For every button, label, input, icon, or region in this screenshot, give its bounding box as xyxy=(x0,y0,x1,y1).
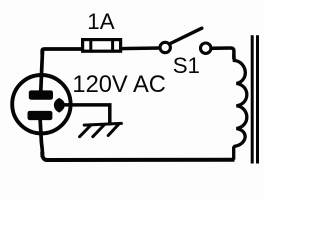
wire bottom rail xyxy=(42,154,232,160)
transformer T1 primary winding xyxy=(234,56,247,158)
transformer core line right xyxy=(256,35,259,163)
chassis ground symbol xyxy=(80,123,122,136)
plug slot lower blade xyxy=(28,111,53,120)
wire ground pin to earth xyxy=(62,105,110,124)
transformer core line left xyxy=(251,35,254,163)
switch S1 lever xyxy=(171,28,202,43)
plug ground pin xyxy=(54,98,70,113)
switch S1 right terminal xyxy=(201,43,211,53)
wire top rail left segment xyxy=(42,49,81,53)
svg-text:S1: S1 xyxy=(173,53,200,78)
plug slot upper blade xyxy=(29,90,53,99)
wire fuse to switch xyxy=(122,46,160,50)
svg-text:120V AC: 120V AC xyxy=(72,72,166,98)
wire left rail bottom vertical xyxy=(40,117,42,156)
AC plug P1 outer circle xyxy=(12,75,70,133)
wire switch to transformer with corner drop xyxy=(211,48,234,58)
wire left rail top vertical xyxy=(41,51,43,93)
switch S1 left terminal xyxy=(160,42,170,52)
svg-text:1A: 1A xyxy=(87,9,114,34)
fuse F (1A) body xyxy=(83,38,121,52)
